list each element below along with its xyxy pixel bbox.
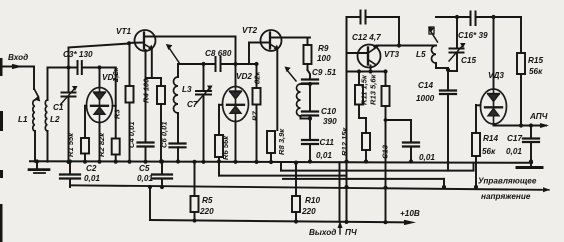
- svg-text:R5: R5: [202, 196, 213, 205]
- svg-text:R7: R7: [251, 111, 260, 121]
- svg-text:С17: С17: [507, 134, 522, 143]
- svg-text:220: 220: [301, 207, 316, 216]
- svg-text:С3* 130: С3* 130: [63, 50, 93, 59]
- svg-text:С12 4,7: С12 4,7: [352, 33, 381, 42]
- svg-text:С8 680: С8 680: [205, 49, 232, 58]
- svg-text:АПЧ: АПЧ: [529, 112, 548, 121]
- svg-text:С10: С10: [321, 107, 336, 116]
- svg-text:R13 5,6к: R13 5,6к: [369, 73, 378, 105]
- svg-text:Вход: Вход: [8, 53, 28, 62]
- svg-text:0,01: 0,01: [84, 174, 100, 183]
- svg-text:56к: 56к: [482, 147, 496, 156]
- svg-text:R12 15к: R12 15к: [340, 127, 349, 156]
- svg-text:0,01: 0,01: [506, 147, 522, 156]
- svg-text:С16* 39: С16* 39: [458, 31, 488, 40]
- svg-text:С1: С1: [53, 103, 64, 112]
- svg-text:С13: С13: [381, 144, 390, 159]
- svg-text:R15: R15: [528, 56, 543, 65]
- svg-text:С11: С11: [320, 138, 335, 147]
- svg-text:С6 0,01: С6 0,01: [160, 121, 169, 148]
- svg-text:VT2: VT2: [242, 26, 257, 35]
- svg-text:Управляющее: Управляющее: [478, 177, 537, 186]
- svg-text:С5: С5: [139, 164, 150, 173]
- svg-text:0,01: 0,01: [137, 174, 153, 183]
- svg-text:0,01: 0,01: [316, 151, 332, 160]
- svg-text:0,01: 0,01: [419, 153, 435, 162]
- svg-text:VD2: VD2: [236, 72, 252, 81]
- svg-text:С9 .51: С9 .51: [312, 68, 337, 77]
- svg-text:+10В: +10В: [400, 209, 420, 218]
- svg-text:2,2к: 2,2к: [111, 66, 120, 83]
- svg-text:С7: С7: [187, 100, 198, 109]
- svg-text:R8 3,9к: R8 3,9к: [277, 128, 286, 155]
- svg-text:Выход: Выход: [309, 228, 336, 237]
- svg-text:R1 55к: R1 55к: [66, 132, 75, 157]
- svg-text:напряжение: напряжение: [481, 192, 531, 201]
- svg-text:L1: L1: [18, 115, 28, 124]
- svg-text:390: 390: [323, 117, 337, 126]
- svg-text:R11 1,5к: R11 1,5к: [360, 74, 369, 105]
- svg-text:R6 56к: R6 56к: [221, 135, 230, 160]
- svg-text:R3: R3: [113, 109, 122, 119]
- svg-text:R14: R14: [483, 134, 498, 143]
- svg-text:100: 100: [317, 54, 331, 63]
- svg-text:С15: С15: [461, 56, 476, 65]
- svg-text:L5: L5: [416, 50, 426, 59]
- svg-text:56к: 56к: [529, 67, 543, 76]
- svg-text:82к: 82к: [253, 71, 262, 84]
- svg-text:R4 100: R4 100: [142, 78, 151, 103]
- svg-text:С14: С14: [418, 81, 433, 90]
- svg-text:R10: R10: [305, 196, 320, 205]
- svg-text:L2: L2: [50, 115, 60, 124]
- svg-text:ПЧ: ПЧ: [345, 228, 357, 237]
- svg-text:220: 220: [199, 207, 214, 216]
- svg-text:R2 82к: R2 82к: [97, 132, 106, 157]
- svg-text:VT1: VT1: [116, 27, 131, 36]
- svg-text:R9: R9: [318, 44, 329, 53]
- svg-text:VT3: VT3: [384, 50, 399, 59]
- svg-text:С4 0,01: С4 0,01: [127, 121, 136, 148]
- svg-text:VД3: VД3: [488, 71, 504, 80]
- svg-text:1000: 1000: [416, 94, 435, 103]
- svg-text:L3: L3: [182, 85, 192, 94]
- svg-text:С2: С2: [86, 164, 97, 173]
